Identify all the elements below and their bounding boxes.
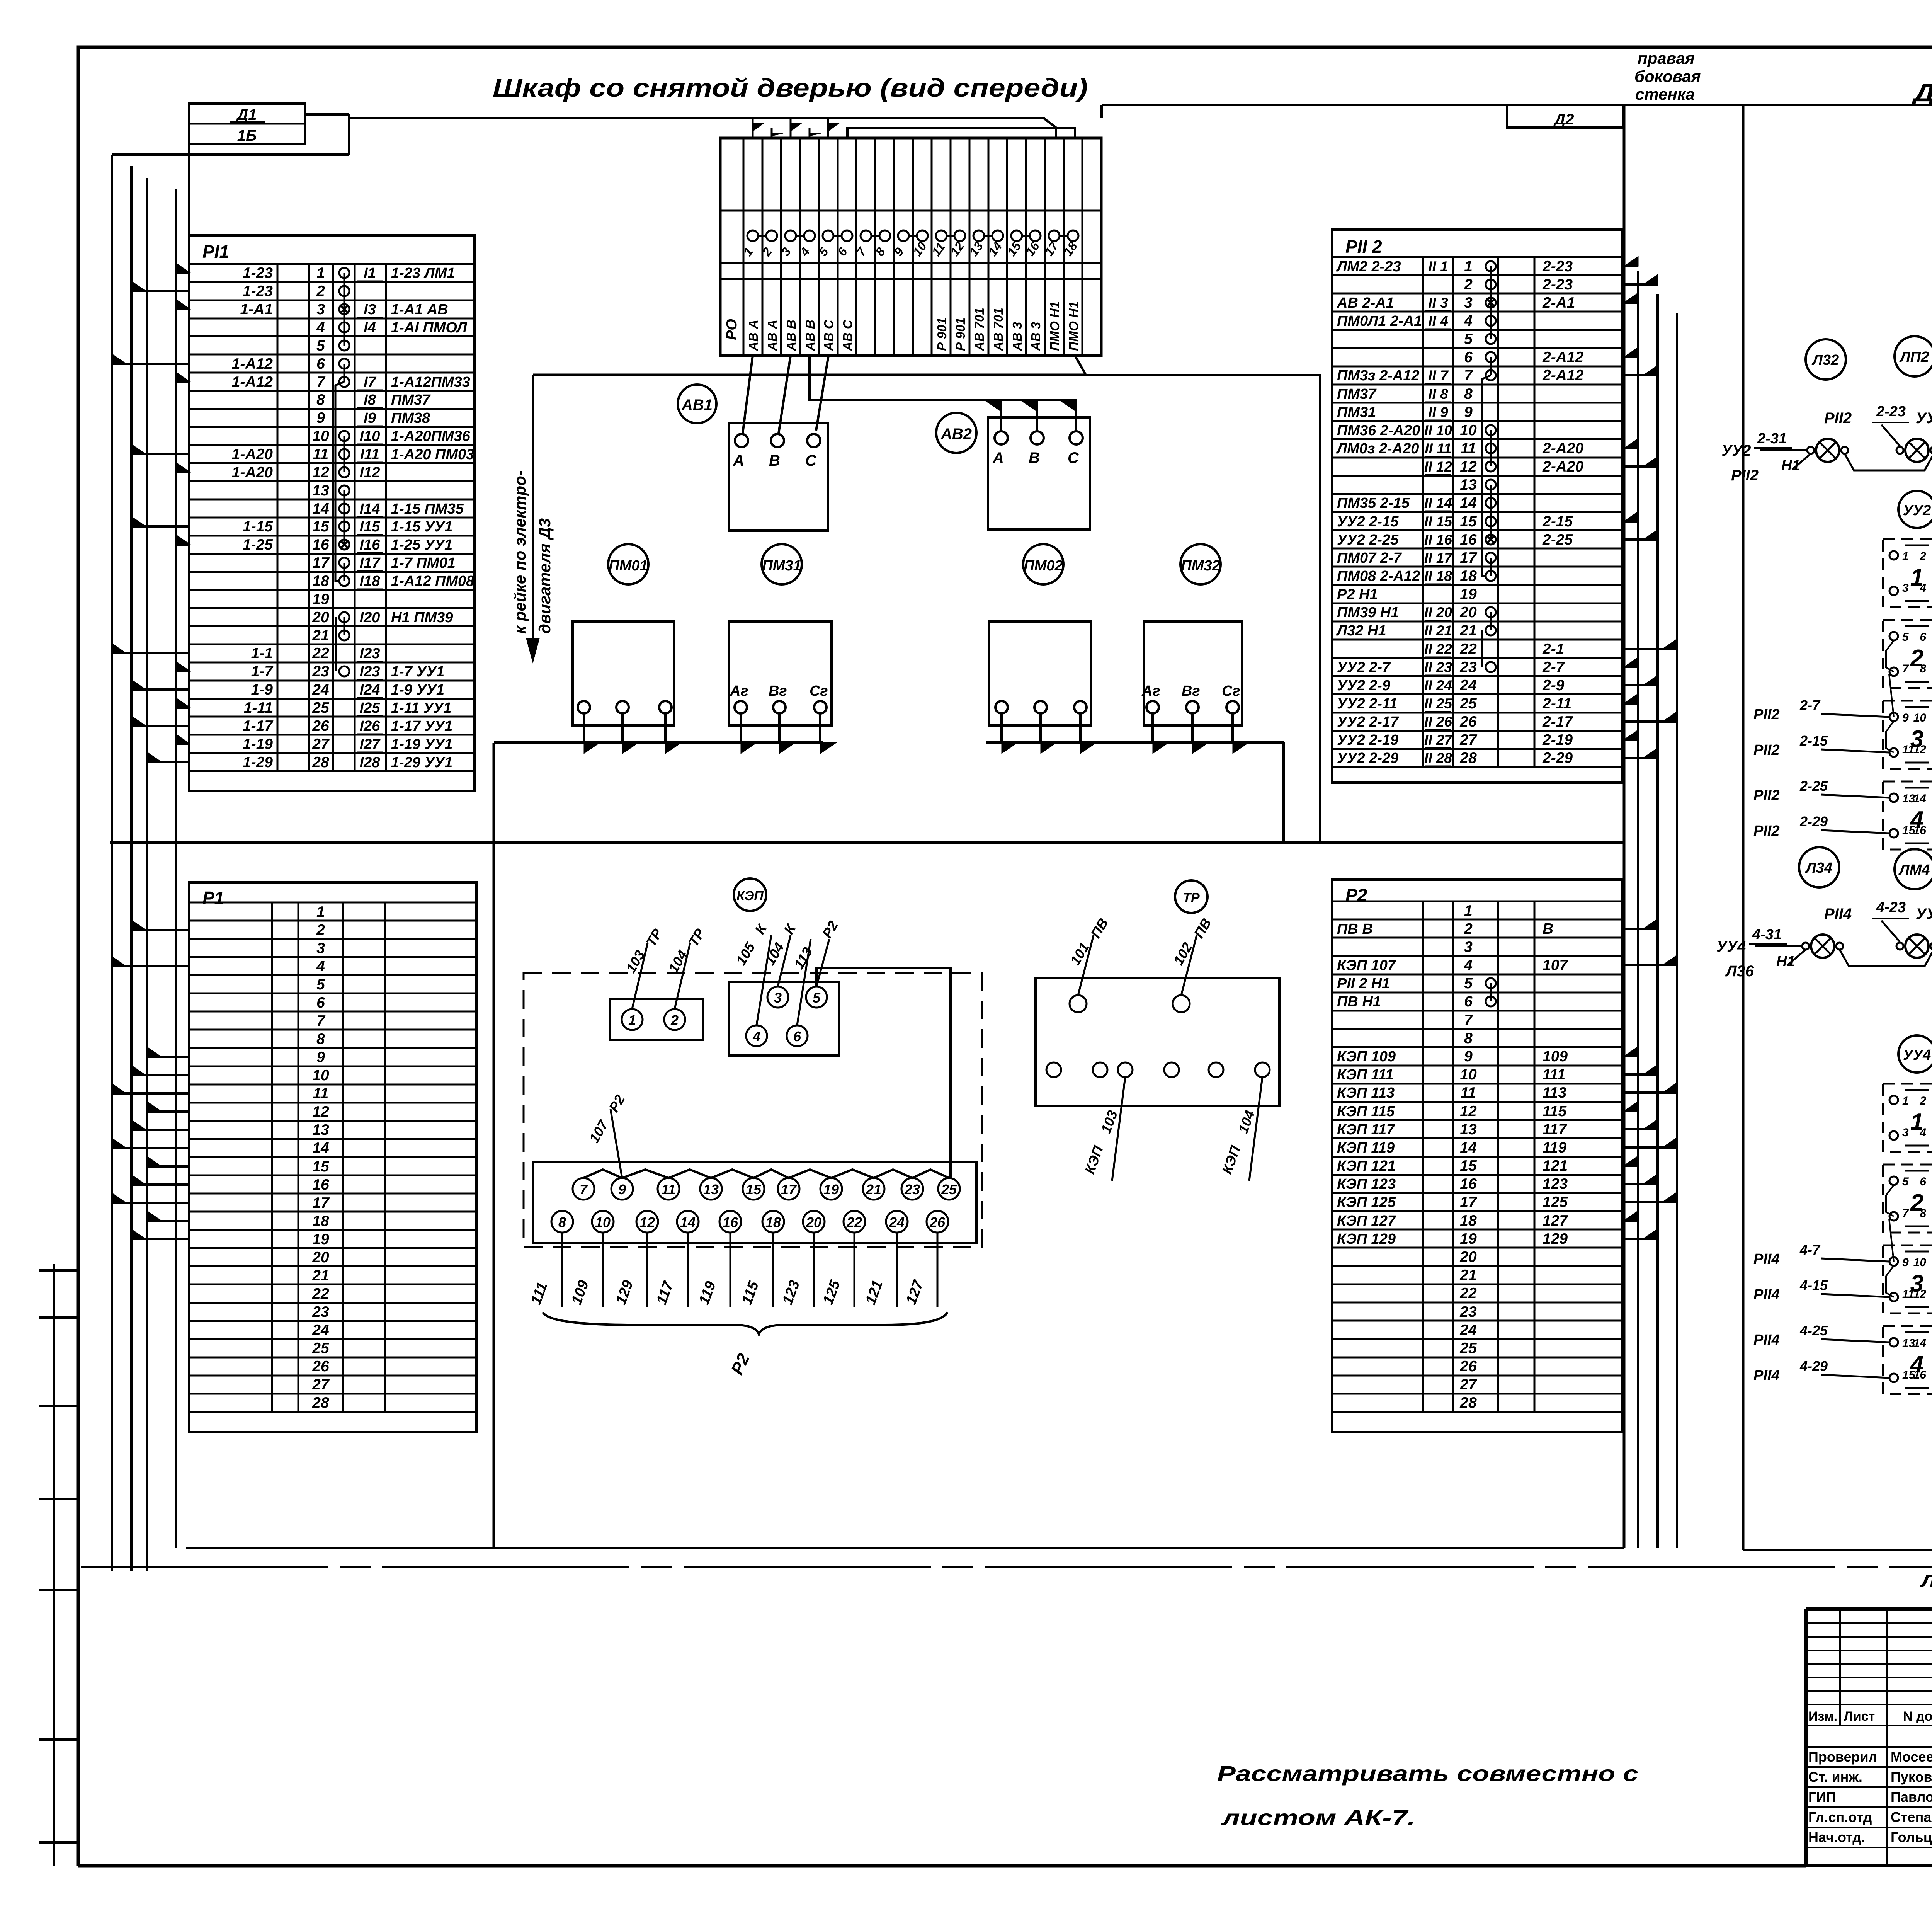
svg-text:I7: I7 bbox=[364, 374, 377, 390]
svg-text:I4: I4 bbox=[364, 320, 376, 336]
terminal strip PO bbox=[720, 118, 1101, 356]
wires strip to AB1 bbox=[743, 356, 828, 433]
svg-text:3: 3 bbox=[316, 301, 325, 318]
svg-text:II 14: II 14 bbox=[1424, 495, 1452, 511]
svg-text:7: 7 bbox=[1464, 1012, 1473, 1028]
svg-text:15: 15 bbox=[312, 1158, 330, 1175]
wire УУ4 pin left 4-29 bbox=[1753, 1358, 1889, 1384]
wire bracket PI1 rows 20-23 bbox=[335, 617, 337, 671]
svg-text:12: 12 bbox=[312, 1103, 329, 1120]
svg-text:ЛМ4: ЛМ4 bbox=[1898, 862, 1930, 878]
svg-text:I23: I23 bbox=[360, 664, 380, 680]
svg-text:I18: I18 bbox=[360, 573, 381, 589]
svg-text:РII4: РII4 bbox=[1753, 1287, 1780, 1303]
svg-text:24: 24 bbox=[312, 1322, 329, 1338]
svg-text:ПМ31: ПМ31 bbox=[1337, 404, 1376, 421]
svg-text:I23: I23 bbox=[360, 645, 380, 662]
svg-text:Шкаф со снятой дверью (вид: Шкаф со снятой дверью (вид спереди) bbox=[493, 73, 1088, 102]
svg-text:23: 23 bbox=[1459, 1304, 1477, 1320]
svg-text:2-17: 2-17 bbox=[1542, 713, 1573, 730]
svg-text:ПМ35 2-15: ПМ35 2-15 bbox=[1337, 495, 1410, 511]
svg-text:15: 15 bbox=[312, 518, 330, 535]
svg-text:1: 1 bbox=[1910, 1109, 1923, 1136]
svg-text:КЭП 123: КЭП 123 bbox=[1337, 1176, 1396, 1192]
lamp row return wires bbox=[1725, 925, 1932, 980]
svg-text:Р2 Н1: Р2 Н1 bbox=[1337, 586, 1378, 603]
svg-text:6: 6 bbox=[316, 994, 325, 1011]
svg-text:11: 11 bbox=[661, 1182, 675, 1197]
svg-text:125: 125 bbox=[1543, 1194, 1568, 1210]
svg-text:123: 123 bbox=[1543, 1176, 1568, 1192]
svg-text:Сг: Сг bbox=[810, 683, 828, 699]
svg-text:2-23: 2-23 bbox=[1876, 403, 1906, 420]
lamp row risers bbox=[1824, 403, 1932, 446]
contactor label ПМ01 bbox=[608, 544, 648, 584]
svg-text:4-25: 4-25 bbox=[1799, 1323, 1828, 1338]
wire bundle: wall vertical 2 bbox=[1656, 294, 1659, 1548]
wire bundle: left vertical 3 bbox=[146, 178, 148, 1571]
svg-text:I27: I27 bbox=[360, 736, 381, 752]
lamp row return wires bbox=[1731, 429, 1932, 484]
svg-text:II 17: II 17 bbox=[1424, 550, 1453, 566]
svg-text:10: 10 bbox=[312, 1067, 329, 1084]
svg-text:24: 24 bbox=[1459, 677, 1477, 694]
wire from KEP 5 to P2-25 bbox=[816, 968, 951, 1178]
svg-text:7: 7 bbox=[580, 1182, 588, 1197]
svg-text:II 18: II 18 bbox=[1424, 568, 1452, 584]
svg-text:12: 12 bbox=[1460, 458, 1477, 475]
arrow to motor rail D3 bbox=[511, 375, 554, 663]
svg-text:1: 1 bbox=[1464, 258, 1473, 275]
svg-text:1-А20ПМ36: 1-А20ПМ36 bbox=[391, 428, 471, 444]
svg-text:14: 14 bbox=[1913, 792, 1927, 805]
svg-text:1-29: 1-29 bbox=[243, 754, 273, 771]
wire D1 box to PI1 bbox=[188, 144, 190, 235]
svg-text:4-7: 4-7 bbox=[1799, 1242, 1821, 1258]
wire: cabinet bottom bbox=[186, 1547, 1624, 1549]
svg-text:двигателя Д3: двигателя Д3 bbox=[536, 518, 554, 634]
svg-text:16: 16 bbox=[1460, 531, 1477, 548]
svg-text:1-7 УУ1: 1-7 УУ1 bbox=[391, 664, 444, 680]
svg-text:1-25 УУ1: 1-25 УУ1 bbox=[391, 537, 452, 553]
svg-text:II 20: II 20 bbox=[1424, 604, 1452, 620]
svg-text:23: 23 bbox=[904, 1182, 920, 1197]
svg-text:7: 7 bbox=[1902, 1207, 1909, 1220]
svg-text:1-А20: 1-А20 bbox=[232, 446, 273, 463]
svg-text:7: 7 bbox=[316, 374, 326, 390]
wire bundle: left vertical 4 bbox=[175, 189, 177, 1548]
leads 105K 104K 113 P2 bbox=[733, 918, 841, 1025]
svg-text:8: 8 bbox=[316, 1031, 325, 1047]
svg-text:Аг: Аг bbox=[1141, 683, 1160, 699]
svg-text:ПМ32: ПМ32 bbox=[1181, 558, 1220, 574]
svg-text:1: 1 bbox=[1902, 1095, 1909, 1107]
svg-text:24: 24 bbox=[1459, 1322, 1477, 1338]
svg-text:ПМ08 2-А12: ПМ08 2-А12 bbox=[1337, 568, 1420, 584]
svg-text:АВ 701: АВ 701 bbox=[991, 308, 1005, 351]
svg-text:II 24: II 24 bbox=[1424, 678, 1452, 693]
svg-text:В: В bbox=[1029, 449, 1040, 466]
contactor label ПМ02 bbox=[1023, 544, 1063, 584]
wire to lamp row 2-31 bbox=[1721, 431, 1806, 459]
svg-text:1-19: 1-19 bbox=[243, 736, 273, 752]
contactor label ПМ31 bbox=[762, 544, 802, 584]
svg-text:7: 7 bbox=[316, 1013, 326, 1029]
svg-text:УУ2 2-15: УУ2 2-15 bbox=[1337, 514, 1399, 530]
indicator lamp 1 of row 4-31 bbox=[1802, 935, 1843, 958]
lamp Л34 bbox=[1799, 847, 1839, 887]
svg-text:С: С bbox=[805, 452, 817, 469]
svg-text:Н1: Н1 bbox=[1776, 953, 1795, 970]
svg-text:5: 5 bbox=[1902, 1175, 1909, 1188]
svg-text:15: 15 bbox=[746, 1182, 762, 1197]
svg-text:24: 24 bbox=[889, 1214, 905, 1230]
svg-text:26: 26 bbox=[929, 1214, 946, 1230]
wire УУ4 pin left 4-7 bbox=[1753, 1242, 1889, 1267]
svg-text:А: А bbox=[733, 452, 744, 469]
svg-text:16: 16 bbox=[1460, 1176, 1477, 1192]
P2 bottom leads bbox=[528, 1233, 937, 1307]
svg-text:9: 9 bbox=[1464, 404, 1473, 421]
transformer block TP bbox=[1036, 978, 1279, 1106]
wire УУ2 pin left 2-25 bbox=[1753, 778, 1889, 804]
svg-text:1-29 УУ1: 1-29 УУ1 bbox=[391, 754, 452, 771]
svg-text:22: 22 bbox=[846, 1214, 862, 1230]
left fold edge line bbox=[39, 1264, 78, 1866]
svg-text:АВ 3: АВ 3 bbox=[1029, 322, 1043, 351]
svg-text:13: 13 bbox=[703, 1182, 719, 1197]
svg-text:8: 8 bbox=[558, 1214, 566, 1230]
svg-text:КЭП 117: КЭП 117 bbox=[1337, 1122, 1395, 1138]
svg-text:стенка: стенка bbox=[1635, 85, 1695, 103]
wire taps into PI1 bbox=[112, 263, 190, 762]
svg-text:2: 2 bbox=[316, 283, 325, 300]
svg-text:боковая: боковая bbox=[1634, 67, 1701, 85]
svg-text:УУ2: УУ2 bbox=[1721, 442, 1751, 459]
svg-text:N докум.: N докум. bbox=[1903, 1709, 1932, 1724]
svg-text:II 22: II 22 bbox=[1424, 641, 1452, 657]
svg-text:ПМ01: ПМ01 bbox=[609, 558, 648, 574]
svg-text:Д2: Д2 bbox=[1553, 111, 1574, 128]
svg-text:109: 109 bbox=[1543, 1048, 1568, 1065]
svg-text:II 3: II 3 bbox=[1428, 295, 1448, 311]
svg-text:119: 119 bbox=[1543, 1139, 1566, 1156]
svg-text:Р 901: Р 901 bbox=[935, 318, 949, 351]
svg-text:2-1: 2-1 bbox=[1542, 641, 1564, 657]
svg-text:1: 1 bbox=[316, 904, 325, 920]
svg-text:27: 27 bbox=[312, 736, 330, 752]
svg-text:ПМ07 2-7: ПМ07 2-7 bbox=[1337, 550, 1402, 566]
svg-text:1-1: 1-1 bbox=[251, 645, 273, 662]
svg-text:3: 3 bbox=[774, 990, 782, 1006]
svg-text:10: 10 bbox=[1913, 712, 1927, 724]
svg-text:УУ2 2-7: УУ2 2-7 bbox=[1337, 659, 1391, 676]
svg-text:II 9: II 9 bbox=[1428, 404, 1448, 420]
svg-text:I16: I16 bbox=[360, 537, 381, 553]
svg-text:КЭП: КЭП bbox=[736, 889, 764, 903]
svg-text:РII4: РII4 bbox=[1753, 1332, 1780, 1348]
wire taps out of PII2 bbox=[1622, 256, 1677, 758]
svg-text:26: 26 bbox=[312, 1358, 329, 1375]
breaker AB1 bbox=[729, 423, 828, 531]
svg-text:Вг: Вг bbox=[769, 683, 787, 699]
svg-text:5: 5 bbox=[813, 990, 821, 1006]
connector УУ2 label bbox=[1898, 491, 1932, 528]
svg-text:11: 11 bbox=[1461, 440, 1476, 457]
bus wire under PM01/PM31 bbox=[494, 713, 837, 1548]
svg-text:ПВ В: ПВ В bbox=[1337, 921, 1373, 937]
svg-text:УУ2 2-29: УУ2 2-29 bbox=[1337, 750, 1398, 766]
svg-text:РII 2: РII 2 bbox=[1345, 237, 1382, 257]
connector УУ4 section 2 bbox=[1883, 1165, 1932, 1233]
svg-text:I17: I17 bbox=[360, 555, 381, 571]
svg-text:II 25: II 25 bbox=[1424, 696, 1452, 712]
svg-text:22: 22 bbox=[1459, 641, 1477, 657]
svg-text:Вг: Вг bbox=[1182, 683, 1200, 699]
cabinet right wall edge bbox=[1623, 105, 1626, 1548]
svg-text:22: 22 bbox=[312, 645, 329, 662]
lamp Л32 bbox=[1806, 339, 1846, 380]
svg-text:1-11: 1-11 bbox=[244, 700, 273, 716]
svg-text:127: 127 bbox=[1543, 1212, 1568, 1229]
svg-text:ПМО Н1: ПМО Н1 bbox=[1066, 301, 1081, 351]
wire taps out of P2 bbox=[1622, 919, 1677, 1239]
svg-text:17: 17 bbox=[1460, 1194, 1478, 1210]
svg-text:Степаненко: Степаненко bbox=[1891, 1809, 1932, 1825]
svg-text:9: 9 bbox=[1902, 1256, 1909, 1269]
connector УУ2 section 2 bbox=[1883, 620, 1932, 688]
terminal block P1 bbox=[189, 882, 476, 1432]
svg-text:Р 901: Р 901 bbox=[953, 318, 968, 351]
svg-text:УУ2: УУ2 bbox=[1903, 502, 1931, 519]
svg-text:КЭП 121: КЭП 121 bbox=[1337, 1158, 1396, 1174]
svg-text:13: 13 bbox=[1460, 1121, 1477, 1138]
svg-text:2-А20: 2-А20 bbox=[1542, 440, 1584, 457]
svg-text:4-31: 4-31 bbox=[1752, 926, 1782, 943]
svg-text:А: А bbox=[992, 449, 1004, 466]
svg-text:Лист: Лист bbox=[1844, 1709, 1875, 1724]
svg-text:16: 16 bbox=[312, 1176, 329, 1193]
wire: vertical from D1 bus bbox=[348, 114, 350, 155]
svg-text:1-17 УУ1: 1-17 УУ1 bbox=[391, 718, 452, 734]
svg-text:ЛМ2 2-23: ЛМ2 2-23 bbox=[1336, 259, 1401, 275]
svg-text:25: 25 bbox=[941, 1182, 957, 1197]
svg-text:4-29: 4-29 bbox=[1799, 1358, 1828, 1374]
svg-text:13: 13 bbox=[1460, 477, 1477, 493]
svg-text:II 15: II 15 bbox=[1424, 514, 1452, 529]
svg-text:1-7: 1-7 bbox=[251, 663, 274, 680]
svg-text:1: 1 bbox=[1910, 564, 1923, 591]
svg-text:25: 25 bbox=[312, 700, 330, 716]
svg-text:3: 3 bbox=[1902, 582, 1909, 594]
svg-text:РII2: РII2 bbox=[1731, 467, 1759, 484]
svg-text:АВ С: АВ С bbox=[821, 319, 836, 351]
svg-text:23: 23 bbox=[312, 663, 329, 680]
svg-text:II 28: II 28 bbox=[1424, 750, 1452, 766]
wire bundle: wall vertical 3 bbox=[1676, 313, 1678, 1548]
svg-text:4: 4 bbox=[1464, 957, 1473, 974]
door left edge bbox=[1742, 105, 1745, 1550]
device label KEP bbox=[734, 878, 766, 911]
contactor label ПМ32 bbox=[1180, 544, 1221, 584]
svg-text:2-15: 2-15 bbox=[1542, 513, 1573, 530]
title block bbox=[1806, 1609, 1932, 1866]
svg-text:II 4: II 4 bbox=[1428, 313, 1448, 329]
connector block 1-2 bbox=[610, 999, 703, 1040]
svg-text:ПВ Н1: ПВ Н1 bbox=[1337, 994, 1381, 1010]
svg-text:6: 6 bbox=[1464, 349, 1473, 366]
svg-text:1-АI ПМОЛ: 1-АI ПМОЛ bbox=[391, 320, 467, 336]
svg-text:листом АК-7.: листом АК-7. bbox=[1221, 1805, 1415, 1830]
svg-text:2-7: 2-7 bbox=[1542, 659, 1565, 676]
svg-text:14: 14 bbox=[1913, 1337, 1927, 1350]
svg-text:15: 15 bbox=[1460, 1158, 1477, 1174]
svg-text:4: 4 bbox=[316, 319, 325, 336]
svg-text:Изм.: Изм. bbox=[1808, 1709, 1837, 1724]
svg-text:КЭП 115: КЭП 115 bbox=[1337, 1103, 1395, 1120]
svg-text:28: 28 bbox=[312, 754, 329, 771]
svg-text:2-19: 2-19 bbox=[1542, 732, 1573, 748]
svg-text:5: 5 bbox=[316, 976, 325, 993]
lamp ЛП2 bbox=[1895, 336, 1932, 376]
svg-text:11: 11 bbox=[1461, 1084, 1476, 1101]
svg-text:9: 9 bbox=[1902, 712, 1909, 724]
svg-text:КЭП 111: КЭП 111 bbox=[1337, 1067, 1393, 1083]
svg-text:Л32: Л32 bbox=[1811, 352, 1839, 368]
svg-text:КЭП 125: КЭП 125 bbox=[1337, 1194, 1396, 1210]
svg-text:17: 17 bbox=[781, 1182, 797, 1197]
svg-text:Проверил: Проверил bbox=[1808, 1749, 1878, 1765]
indicator lamp 2 of row 2-31 bbox=[1896, 439, 1932, 462]
svg-text:22: 22 bbox=[1459, 1285, 1477, 1302]
svg-text:113: 113 bbox=[1543, 1084, 1566, 1101]
svg-text:1-15 ПМ35: 1-15 ПМ35 bbox=[391, 501, 464, 517]
svg-text:4: 4 bbox=[752, 1028, 760, 1044]
svg-text:10: 10 bbox=[1460, 1066, 1477, 1083]
svg-text:8: 8 bbox=[1464, 386, 1473, 402]
svg-text:РII2: РII2 bbox=[1753, 787, 1780, 804]
svg-text:27: 27 bbox=[1459, 732, 1478, 748]
svg-text:I24: I24 bbox=[360, 682, 380, 698]
svg-text:I10: I10 bbox=[360, 428, 380, 444]
connector УУ2 section 3 bbox=[1883, 701, 1932, 769]
svg-text:12: 12 bbox=[639, 1214, 655, 1230]
svg-text:Нач.отд.: Нач.отд. bbox=[1808, 1829, 1865, 1845]
svg-text:2-А12: 2-А12 bbox=[1542, 367, 1584, 384]
wire УУ2 pin left 2-15 bbox=[1753, 733, 1889, 758]
svg-text:ПМ39 Н1: ПМ39 Н1 bbox=[1337, 604, 1399, 621]
svg-text:14: 14 bbox=[1460, 495, 1477, 511]
svg-text:ПМ36 2-А20: ПМ36 2-А20 bbox=[1337, 422, 1420, 439]
wire: second strip bus y332 bbox=[847, 128, 1075, 138]
wire: mid horizontal divider bbox=[110, 841, 1624, 844]
terminal box D2 bbox=[1507, 105, 1623, 128]
svg-text:1-11 УУ1: 1-11 УУ1 bbox=[391, 700, 451, 716]
svg-text:УУ2 2-19: УУ2 2-19 bbox=[1337, 732, 1398, 748]
svg-text:Мосеенко: Мосеенко bbox=[1891, 1749, 1932, 1765]
svg-text:РII4: РII4 bbox=[1824, 906, 1852, 923]
svg-text:РI1: РI1 bbox=[202, 242, 229, 262]
svg-text:6: 6 bbox=[316, 356, 325, 372]
svg-text:2-29: 2-29 bbox=[1799, 814, 1828, 829]
leads KEP103 KEP104 bbox=[1082, 1077, 1262, 1181]
svg-text:2-7: 2-7 bbox=[1799, 697, 1821, 713]
wires strip to AB2 bbox=[810, 356, 1076, 431]
terminal block PII2 bbox=[1332, 230, 1622, 783]
wire strip right to wall bbox=[533, 356, 1320, 843]
svg-text:II 27: II 27 bbox=[1424, 732, 1453, 748]
svg-text:РII2: РII2 bbox=[1753, 742, 1780, 758]
svg-text:18: 18 bbox=[1460, 1212, 1477, 1229]
svg-text:Ст. инж.: Ст. инж. bbox=[1808, 1769, 1862, 1785]
wire УУ2 pin left 2-7 bbox=[1753, 697, 1889, 723]
svg-text:I3: I3 bbox=[364, 301, 376, 318]
svg-text:II 8: II 8 bbox=[1428, 386, 1448, 402]
svg-text:2-23: 2-23 bbox=[1542, 258, 1573, 275]
wire УУ4 pin left 4-15 bbox=[1753, 1277, 1889, 1303]
svg-text:АВ 701: АВ 701 bbox=[972, 308, 986, 351]
svg-text:17: 17 bbox=[1460, 550, 1478, 566]
svg-text:21: 21 bbox=[1459, 622, 1476, 639]
svg-text:Сг: Сг bbox=[1222, 683, 1240, 699]
svg-text:РО: РО bbox=[724, 319, 740, 340]
svg-text:I25: I25 bbox=[360, 700, 381, 716]
svg-text:2-А20: 2-А20 bbox=[1542, 458, 1584, 475]
svg-text:Л32 Н1: Л32 Н1 bbox=[1336, 623, 1386, 639]
svg-text:I9: I9 bbox=[364, 410, 376, 426]
connector УУ2 section 1 bbox=[1883, 539, 1932, 607]
svg-text:2: 2 bbox=[1464, 921, 1473, 937]
wire bracket PII2 rows 7-18 bbox=[1482, 375, 1491, 576]
svg-text:I26: I26 bbox=[360, 718, 381, 734]
svg-text:6: 6 bbox=[1920, 1175, 1926, 1188]
svg-text:2: 2 bbox=[1910, 645, 1923, 672]
svg-text:13: 13 bbox=[312, 482, 329, 499]
svg-text:25: 25 bbox=[1459, 1340, 1477, 1357]
svg-text:1-А12: 1-А12 bbox=[232, 356, 273, 372]
svg-text:II 16: II 16 bbox=[1424, 532, 1452, 548]
svg-text:1-А1: 1-А1 bbox=[240, 301, 273, 318]
svg-text:Д1: Д1 bbox=[236, 106, 257, 123]
svg-text:5: 5 bbox=[316, 337, 325, 354]
svg-text:к рейке по электро-: к рейке по электро- bbox=[511, 470, 529, 634]
wire bundle: left vertical 1 bbox=[111, 155, 113, 1571]
svg-text:14: 14 bbox=[680, 1214, 696, 1230]
connector block KEP 3-6 bbox=[729, 982, 839, 1056]
svg-text:28: 28 bbox=[1459, 1394, 1477, 1411]
svg-text:16: 16 bbox=[723, 1214, 738, 1230]
wire bracket PI1 rows 7-18 bbox=[335, 382, 344, 581]
svg-text:4: 4 bbox=[316, 958, 325, 975]
svg-text:3: 3 bbox=[1464, 295, 1473, 311]
svg-text:АВ А: АВ А bbox=[765, 320, 779, 351]
svg-text:ПМ3з 2-А12: ПМ3з 2-А12 bbox=[1337, 368, 1420, 384]
wire: horizontal bus y400 bbox=[112, 153, 349, 156]
svg-text:8: 8 bbox=[316, 392, 325, 408]
svg-text:АВ 3: АВ 3 bbox=[1010, 322, 1024, 351]
svg-text:15: 15 bbox=[1460, 513, 1477, 530]
svg-text:27: 27 bbox=[312, 1376, 330, 1393]
svg-text:8: 8 bbox=[1464, 1030, 1473, 1047]
svg-text:Гл.сп.отд: Гл.сп.отд bbox=[1808, 1809, 1872, 1825]
svg-text:19: 19 bbox=[312, 591, 329, 608]
svg-text:КЭП 109: КЭП 109 bbox=[1337, 1049, 1396, 1065]
svg-text:II 1: II 1 bbox=[1428, 259, 1448, 274]
svg-text:правая: правая bbox=[1638, 49, 1695, 67]
svg-text:18: 18 bbox=[312, 573, 329, 589]
svg-text:9: 9 bbox=[316, 1049, 325, 1066]
contactor box PM01 bbox=[573, 621, 674, 725]
